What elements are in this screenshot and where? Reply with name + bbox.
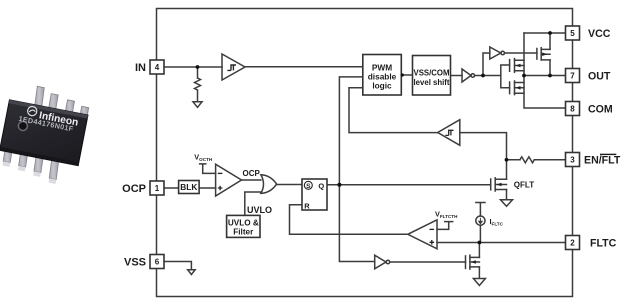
svg-text:logic: logic [372,81,392,91]
svg-text:EN/FLT: EN/FLT [584,155,621,167]
svg-text:VCC: VCC [588,28,611,40]
svg-text:S: S [306,183,311,190]
svg-text:VSS/COM: VSS/COM [414,69,450,78]
svg-text:VSS: VSS [124,257,146,269]
svg-text:OCP: OCP [122,183,146,195]
svg-text:2: 2 [570,239,575,248]
svg-text:4: 4 [155,63,160,72]
svg-text:IN: IN [135,62,146,74]
svg-text:OCP: OCP [243,169,261,178]
svg-text:COM: COM [588,104,613,116]
svg-text:Q: Q [318,181,324,190]
svg-text:1: 1 [155,184,160,193]
svg-text:5: 5 [570,29,575,38]
svg-text:UVLO: UVLO [247,205,272,215]
svg-text:R: R [304,201,310,210]
svg-text:Filter: Filter [233,228,254,237]
svg-text:8: 8 [570,105,575,114]
svg-text:UVLO &: UVLO & [228,218,259,227]
svg-text:6: 6 [155,258,160,267]
svg-text:OUT: OUT [588,71,611,83]
svg-text:level shift: level shift [414,78,450,87]
svg-text:3: 3 [570,156,575,165]
svg-text:QFLT: QFLT [514,181,534,190]
svg-text:7: 7 [570,72,575,81]
svg-text:BLK: BLK [180,182,197,192]
svg-text:FLTC: FLTC [590,238,617,250]
